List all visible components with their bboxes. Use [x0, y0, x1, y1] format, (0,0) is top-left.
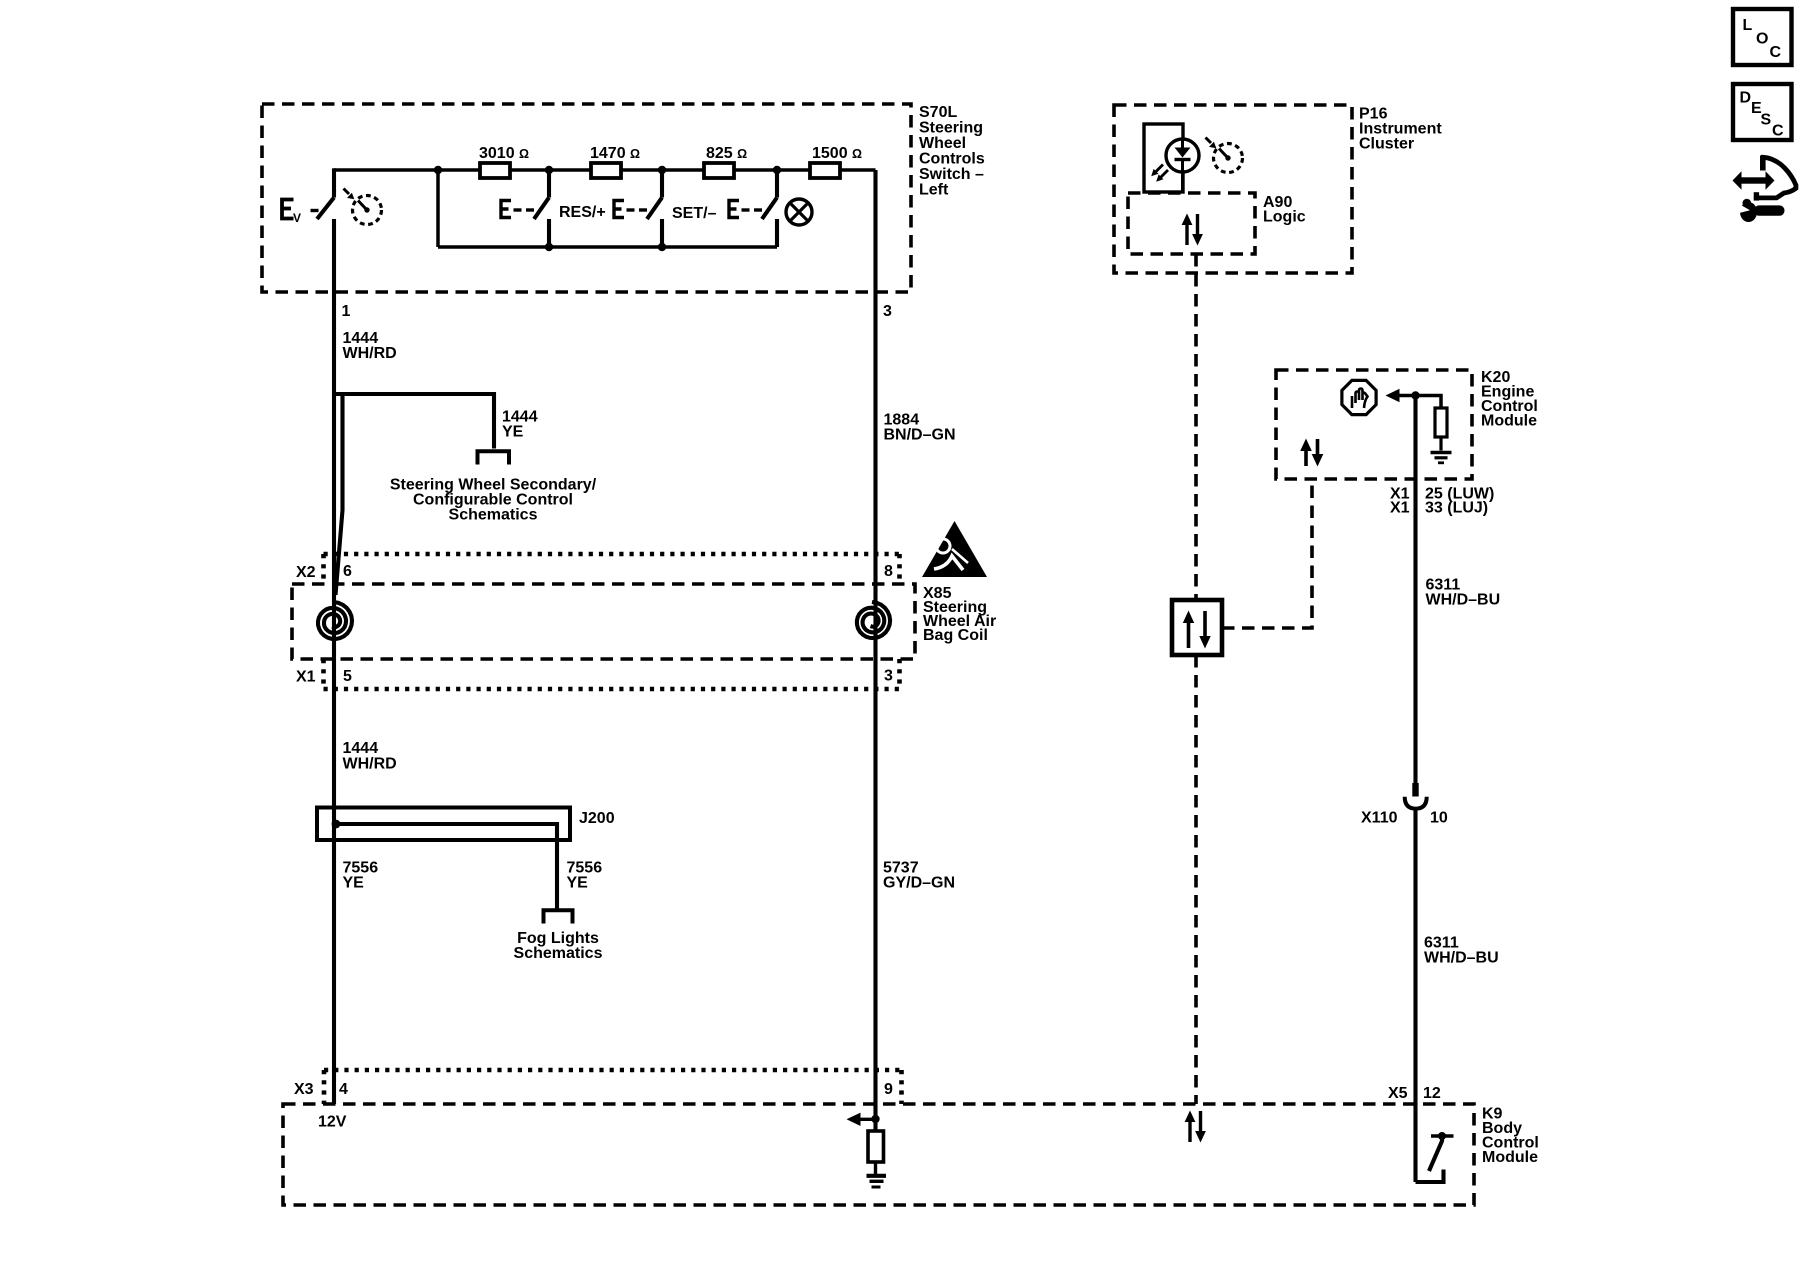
wire bottom bus inside S70L: [438, 245, 777, 249]
node junction on pin9 wire inside K9: [871, 1115, 879, 1123]
indicator block of P16: [1144, 124, 1183, 192]
svg-text:Steering: Steering: [919, 120, 983, 137]
pin X5 12 of K9: [1388, 1085, 1441, 1102]
serial data arrows in link box: [1183, 611, 1211, 649]
svg-text:WH/D–BU: WH/D–BU: [1424, 950, 1499, 967]
pin X1 25 (LUW) / X1 33 (LUJ) of K20: [1390, 486, 1494, 517]
svg-text:Wheel: Wheel: [919, 135, 966, 152]
svg-text:WH/RD: WH/RD: [343, 345, 397, 362]
svg-text:5: 5: [343, 668, 352, 685]
svg-text:X1: X1: [296, 669, 316, 686]
label S70L Steering Wheel Controls Switch - Left: [919, 104, 985, 199]
component box K20 Engine Control Module (dashed): [1276, 370, 1472, 479]
wire serial data link to K20 (dashed): [1222, 479, 1312, 628]
node junction at ECM pin wire: [1411, 391, 1419, 399]
label A90 Logic: [1263, 194, 1306, 226]
serial data arrows in A90: [1182, 214, 1203, 246]
node junction bottom bus at RES switch: [545, 243, 553, 251]
svg-text:SET/–: SET/–: [672, 205, 717, 222]
svg-text:GY/D–GN: GY/D–GN: [883, 875, 955, 892]
arrow to internal ECM circuit (left): [1386, 389, 1416, 402]
svg-text:S70L: S70L: [919, 104, 957, 121]
svg-text:1500 Ω: 1500 Ω: [812, 145, 862, 162]
svg-text:O: O: [1756, 31, 1768, 48]
svg-text:X3: X3: [294, 1081, 314, 1098]
svg-text:Cluster: Cluster: [1359, 136, 1414, 153]
svg-text:YE: YE: [502, 424, 524, 441]
wire to internal pull resistor: [1416, 396, 1442, 409]
switch internal K9: [1416, 1132, 1454, 1182]
svg-text:1444: 1444: [343, 740, 379, 757]
arrow to internal circuit (left): [847, 1113, 876, 1126]
svg-text:Module: Module: [1482, 1149, 1538, 1166]
wire serial data from A90 (dashed): [1194, 254, 1198, 600]
wire branch 1444 YE double-run to off-page reference: [336, 394, 495, 595]
svg-text:1: 1: [342, 303, 351, 320]
wire 6311 WH/D-BU lower: [1413, 809, 1417, 1182]
svg-text:X110: X110: [1361, 810, 1398, 827]
svg-text:X2: X2: [296, 564, 316, 581]
logic block A90 (dashed): [1128, 193, 1255, 254]
svg-text:Schematics: Schematics: [449, 507, 538, 524]
wire left branch vertical: [436, 170, 440, 247]
serial data arrows in K9: [1185, 1111, 1206, 1143]
svg-text:3: 3: [884, 668, 893, 685]
coil left (clockspring) of X85: [318, 602, 352, 639]
coil right (clockspring) of X85: [857, 602, 890, 638]
resistor internal K9 pull: [868, 1131, 884, 1162]
node junction top bus at illumination switch: [773, 166, 781, 174]
svg-text:8: 8: [884, 563, 893, 580]
splice pack J200: [317, 808, 570, 841]
svg-text:WH/RD: WH/RD: [343, 756, 397, 773]
svg-text:YE: YE: [343, 875, 365, 892]
wire stub resistor to ground: [874, 1162, 877, 1174]
switch RES/+: [501, 170, 549, 247]
label Steering Wheel Secondary/Configurable Control Schematics: [390, 477, 597, 524]
off-page reference bracket (steering wheel secondary controls): [478, 451, 510, 464]
svg-text:6: 6: [343, 563, 352, 580]
icon airbag warning triangle: [922, 521, 987, 577]
svg-text:Bag Coil: Bag Coil: [923, 627, 988, 644]
resistor 1500 ohm: [810, 163, 840, 178]
connector X2 row (dotted) of X85: [324, 554, 900, 584]
LED indicator symbol: [1151, 139, 1199, 193]
svg-text:YE: YE: [567, 875, 589, 892]
svg-text:10: 10: [1430, 810, 1448, 827]
lamp illumination symbol: [786, 199, 812, 225]
switch SET/-: [614, 170, 662, 247]
switch illumination: [729, 170, 777, 247]
resistor internal ECM pull: [1435, 408, 1447, 437]
svg-text:X5: X5: [1388, 1085, 1408, 1102]
svg-text:V: V: [293, 211, 301, 225]
svg-text:X1: X1: [1390, 500, 1410, 517]
node junction top bus at RES switch: [545, 166, 553, 174]
svg-text:Controls: Controls: [919, 151, 985, 168]
label wire 6311 WH/D-BU lower: [1424, 935, 1499, 967]
svg-text:12: 12: [1423, 1085, 1441, 1102]
ground internal K9: [867, 1176, 887, 1187]
svg-text:WH/D–BU: WH/D–BU: [1426, 592, 1501, 609]
wire left drop from Ev switch (pin 1 wire, 1444 WH/RD): [332, 219, 336, 1104]
wire top bus inside S70L: [334, 168, 876, 172]
svg-text:Logic: Logic: [1263, 209, 1306, 226]
label K9 Body Control Module: [1482, 1106, 1539, 1167]
svg-text:J200: J200: [579, 810, 615, 827]
icon DESC hyperlink box: [1733, 84, 1792, 140]
svg-text:3010 Ω: 3010 Ω: [479, 145, 529, 162]
svg-text:BN/D–GN: BN/D–GN: [884, 427, 956, 444]
icon cruise-control gauge (speedometer): [344, 189, 382, 225]
label Fog Lights Schematics: [514, 930, 603, 962]
label P16 Instrument Cluster: [1359, 106, 1442, 153]
wire stub resistor to ground: [1439, 437, 1442, 451]
component box S70L (dashed): [262, 104, 911, 292]
svg-text:Switch –: Switch –: [919, 166, 984, 183]
svg-text:S: S: [1761, 112, 1772, 129]
resistor 3010 ohm: [480, 163, 510, 178]
svg-text:C: C: [1772, 123, 1784, 140]
label K20 Engine Control Module: [1481, 369, 1538, 430]
svg-text:4: 4: [339, 1081, 348, 1098]
node junction inside J200: [332, 820, 341, 829]
label wire 6311 WH/D-BU upper: [1426, 577, 1501, 609]
svg-text:D: D: [1740, 90, 1752, 107]
node junction top bus at SET switch: [658, 166, 666, 174]
node junction on top bus at left branch: [434, 166, 442, 174]
svg-text:RES/+: RES/+: [559, 204, 606, 221]
svg-text:33 (LUJ): 33 (LUJ): [1425, 500, 1488, 517]
svg-text:12V: 12V: [318, 1114, 347, 1131]
icon LOC hyperlink box: [1733, 9, 1792, 65]
svg-text:825 Ω: 825 Ω: [706, 145, 747, 162]
serial data link box: [1172, 600, 1222, 655]
wire branch 7556 YE to fog lights: [336, 824, 557, 909]
svg-text:L: L: [1743, 17, 1753, 34]
connector X3 row (dotted) bottom: [324, 1070, 902, 1104]
component box P16 Instrument Cluster (dashed): [1114, 105, 1352, 273]
svg-text:C: C: [1770, 44, 1782, 61]
svg-text:Module: Module: [1481, 413, 1537, 430]
svg-text:3: 3: [883, 303, 892, 320]
svg-text:9: 9: [884, 1081, 893, 1098]
icon cruise gauge in cluster: [1206, 138, 1243, 173]
serial data arrows in K20: [1300, 439, 1323, 467]
wire 6311 WH/D-BU from K20: [1413, 396, 1417, 784]
connector X1 row (dotted) of X85: [324, 659, 900, 689]
icon vehicle data link (car with arrows and wrench): [1733, 156, 1796, 223]
ground internal ECM: [1431, 453, 1452, 463]
icon stop/hand octagon: [1342, 380, 1376, 414]
wire right drop from S70L (pin 3 wire): [873, 170, 877, 1131]
wire serial data down to K9 (dashed): [1194, 655, 1198, 1104]
resistor 825 ohm: [704, 163, 734, 178]
svg-text:1470 Ω: 1470 Ω: [590, 145, 640, 162]
connector X110 inline (terminal and cup): [1405, 783, 1427, 809]
resistor 1470 ohm: [591, 163, 621, 178]
svg-text:Left: Left: [919, 182, 949, 199]
label X85 Steering Wheel Air Bag Coil: [923, 585, 996, 644]
off-page reference bracket (fog lights): [544, 910, 573, 923]
component box X85 coil (dashed): [292, 584, 915, 659]
switch S70L cruise on/off (Ev): [282, 168, 334, 225]
svg-text:Schematics: Schematics: [514, 945, 603, 962]
component box K9 Body Control Module (dashed): [283, 1104, 1474, 1205]
node junction bottom bus at SET switch: [658, 243, 666, 251]
